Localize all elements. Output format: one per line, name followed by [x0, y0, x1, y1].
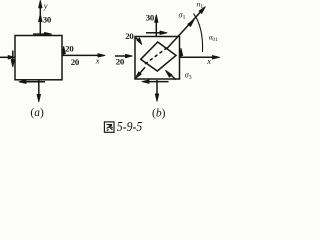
svg-text:(b): (b) — [152, 107, 166, 119]
square element (a) — [15, 36, 62, 80]
shear arrow bottom face (b) — [142, 80, 169, 83]
sigma-y bottom arrow (b) — [155, 80, 158, 101]
svg-text:30: 30 — [43, 15, 52, 25]
svg-text:20: 20 — [125, 31, 134, 41]
svg-text:y: y — [43, 0, 48, 10]
svg-text:20: 20 — [71, 57, 80, 67]
dashed principal direction inside diamond — [145, 47, 168, 64]
sigma-y bottom arrow (a) — [37, 80, 40, 102]
svg-text:20: 20 — [116, 56, 125, 66]
caption glyph TU (CJK) — [104, 122, 114, 132]
svg-text:x: x — [95, 56, 100, 66]
shear arrow left face (a) — [11, 51, 14, 67]
angle arc alpha01 — [194, 14, 203, 53]
shear arrow right face (b) — [179, 48, 182, 57]
svg-text:x: x — [206, 56, 211, 66]
x-axis (b) — [180, 56, 220, 59]
sigma-3 arrow lower-right (b) — [166, 70, 176, 79]
svg-text:α01: α01 — [209, 34, 218, 43]
shear arrow top face (a) — [33, 32, 52, 35]
svg-text:(a): (a) — [30, 107, 44, 119]
rotated principal element (diamond) — [141, 42, 176, 71]
square element (b) — [135, 37, 180, 80]
n1 axis diagonal — [167, 7, 206, 49]
svg-text:n1: n1 — [197, 0, 204, 10]
svg-text:σ1: σ1 — [179, 11, 186, 22]
sigma-x arrow left face (b) — [115, 54, 132, 57]
sigma-x arrow left face (a) — [0, 56, 15, 59]
sigma-1 arrow lower-left face (b) — [135, 67, 145, 78]
svg-text:5-9-5: 5-9-5 — [117, 120, 143, 135]
svg-text:30: 30 — [146, 12, 155, 22]
shear arrow top face (b) — [146, 31, 167, 34]
y-axis (a) — [39, 1, 42, 36]
shear arrow bottom face (a) — [19, 80, 45, 83]
x-axis (a) — [62, 54, 105, 57]
sigma-y top arrow (b) — [155, 15, 158, 37]
sigma-3 arrow upper-left (b) — [136, 38, 142, 45]
sigma-1 arrowhead on diagonal — [188, 20, 194, 27]
shear arrow right face (a) — [62, 46, 65, 55]
sigma-y top arrow (a) — [39, 14, 42, 22]
svg-text:σ3: σ3 — [185, 70, 192, 81]
svg-text:20: 20 — [65, 44, 74, 54]
